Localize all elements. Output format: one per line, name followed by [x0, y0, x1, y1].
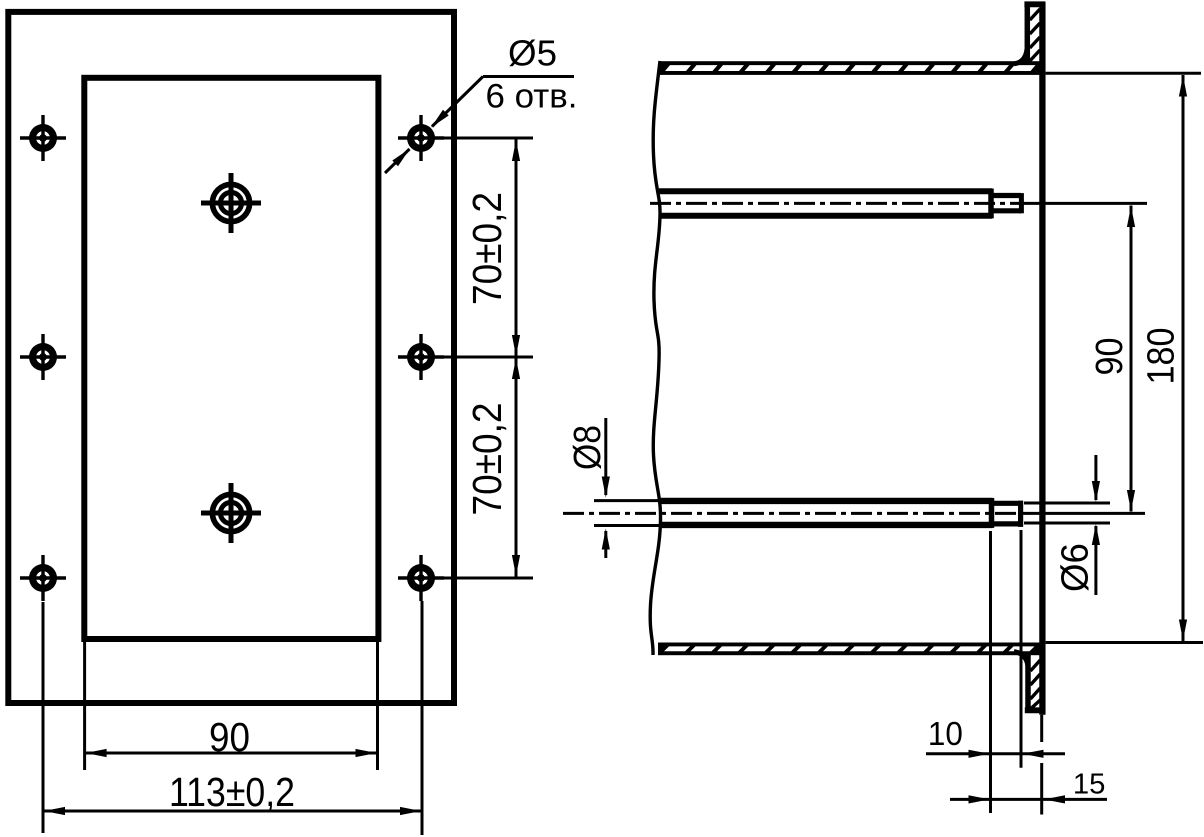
- extension line row2: [398, 356, 533, 359]
- dimension line 10: [926, 752, 1065, 755]
- mounting panel edge: [1039, 2, 1045, 715]
- svg-text:113±0,2: 113±0,2: [169, 769, 295, 815]
- top flange cross-section: [1014, 4, 1045, 64]
- pin 2 edge extension left-bottom: [594, 524, 663, 527]
- extension line pin2-tip-end: [1020, 530, 1023, 768]
- svg-text:90: 90: [209, 714, 250, 760]
- extension line row3: [398, 577, 533, 580]
- dimension Ø6: [1094, 455, 1097, 500]
- inner opening outline: [84, 78, 378, 639]
- pin 1 centerline: [650, 202, 1024, 205]
- bottom flange cross-section: [1014, 652, 1044, 711]
- dimension line 15: [950, 798, 1107, 801]
- center hole C1: [201, 173, 261, 233]
- panel extension line: [1040, 715, 1043, 742]
- top wall cross-section: [659, 61, 1040, 75]
- center hole C2: [201, 483, 261, 543]
- mounting hole B3 (Ø5): [398, 555, 444, 601]
- extension line 90-right: [376, 641, 379, 770]
- mounting hole B2 (Ø5): [398, 334, 444, 380]
- pin 2 edge extension left-top: [594, 499, 663, 502]
- extension line row1: [398, 137, 533, 140]
- svg-text:6 отв.: 6 отв.: [486, 78, 578, 116]
- leader line Ø5: [483, 75, 574, 78]
- extension line 180 bottom: [1046, 641, 1203, 644]
- pin 2 body outline: [659, 498, 993, 504]
- extension line 180 top: [1046, 72, 1201, 75]
- svg-text:70±0,2: 70±0,2: [464, 192, 510, 305]
- svg-text:Ø6: Ø6: [1054, 543, 1096, 592]
- dimension line 113±0,2: [43, 810, 422, 813]
- svg-text:180: 180: [1141, 328, 1183, 385]
- pin 2 tip outline: [991, 501, 1020, 506]
- svg-text:Ø8: Ø8: [567, 425, 609, 470]
- mounting hole B1 (Ø5): [398, 115, 444, 161]
- extension line Ø6 bottom: [1024, 522, 1110, 525]
- dimension line 90 pins: [1130, 206, 1133, 512]
- svg-text:Ø5: Ø5: [508, 33, 557, 74]
- extension line 113-left: [42, 602, 45, 833]
- extension line Ø6 top: [1024, 502, 1110, 505]
- mounting hole A2 (Ø5): [20, 334, 66, 380]
- pin 1 centerline extension: [1024, 202, 1147, 205]
- pin 1 tip outline: [991, 193, 1021, 198]
- svg-text:70±0,2: 70±0,2: [464, 403, 510, 516]
- dimension line 70±0,2 (vertical): [515, 139, 518, 577]
- extension line 90-left: [83, 641, 86, 770]
- pin 2 centerline: [563, 512, 1024, 515]
- extension line pin2-body-end: [989, 531, 992, 813]
- dimension line 180: [1182, 75, 1185, 641]
- dimension Ø8: [604, 418, 607, 495]
- dimension line 90: [85, 752, 378, 755]
- leader counter-arrow: [385, 149, 410, 173]
- svg-text:15: 15: [1073, 769, 1106, 801]
- mounting hole A1 (Ø5): [20, 115, 66, 161]
- pin 2 centerline extension: [1024, 512, 1145, 515]
- outer plate outline: [8, 12, 454, 703]
- extension line 113-right: [421, 601, 424, 835]
- mounting hole A3 (Ø5): [20, 555, 66, 601]
- bottom wall cross-section: [658, 643, 1040, 656]
- pin 1 body outline: [659, 188, 992, 194]
- svg-text:90: 90: [1089, 338, 1131, 376]
- svg-text:10: 10: [928, 715, 963, 752]
- break line (wavy): [650, 61, 660, 655]
